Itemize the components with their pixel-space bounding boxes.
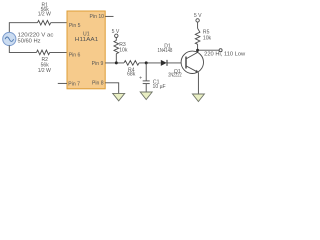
svg-text:1/2 W: 1/2 W — [38, 68, 51, 74]
wire D1 to Q1 base — [167, 62, 186, 64]
resistor R1 — [38, 20, 51, 25]
pin 8 wire to ground — [105, 83, 119, 94]
output terminal — [219, 49, 222, 52]
pin 7 stub wire — [58, 82, 67, 84]
svg-text:Pin 5: Pin 5 — [69, 23, 81, 29]
ground (C1) — [140, 92, 152, 100]
wire pin 9 to R4 — [105, 62, 124, 64]
AC source — [3, 32, 16, 45]
transistor Q1 2N2222 — [181, 51, 203, 73]
capacitor C1 plates — [143, 80, 150, 82]
resistor R5 — [195, 28, 200, 44]
5V supply (R5) — [196, 19, 199, 22]
Q1 labels — [168, 69, 182, 79]
wire output — [198, 49, 220, 51]
wire emitter to ground — [197, 72, 199, 94]
wire R4 to C1 node to D1 — [139, 62, 161, 64]
pin 10 stub wire — [105, 15, 113, 17]
svg-text:+: + — [139, 76, 142, 82]
resistor R3 — [114, 41, 119, 54]
R2 value labels — [38, 57, 51, 74]
wire R5 to 5V — [197, 22, 199, 28]
svg-text:10k: 10k — [119, 48, 128, 54]
svg-text:H11AA1: H11AA1 — [75, 37, 99, 43]
svg-text:1/2 W: 1/2 W — [38, 11, 51, 17]
svg-text:Pin 9: Pin 9 — [92, 61, 104, 67]
diode D1 1N4148 — [161, 60, 167, 66]
svg-text:Pin 10: Pin 10 — [90, 14, 105, 20]
svg-text:220 Hi, 110 Low: 220 Hi, 110 Low — [204, 52, 245, 58]
optocoupler U1 H11AA1 body — [67, 11, 105, 89]
D1 labels — [158, 44, 173, 54]
wire C1 to ground — [145, 84, 147, 92]
wire R2 to Pin 6 — [50, 51, 67, 53]
resistor R2 — [37, 50, 50, 55]
ground (pin 8) — [113, 93, 125, 101]
svg-text:68k: 68k — [127, 72, 136, 78]
node collector junction — [196, 49, 199, 52]
node C1 junction — [145, 61, 148, 64]
svg-text:Pin 6: Pin 6 — [69, 52, 81, 58]
U1 labels — [68, 14, 104, 87]
wire node down to C1 — [145, 63, 147, 81]
R4 labels — [127, 68, 136, 78]
wire R3 to node — [115, 54, 117, 63]
node R3/pin 9 junction — [115, 61, 118, 64]
wire bottom rail from AC source down and right to R2 — [9, 45, 36, 52]
svg-text:10 µF: 10 µF — [153, 84, 166, 90]
wire R1 to Pin 5 — [51, 22, 67, 24]
svg-text:50/60 Hz: 50/60 Hz — [18, 38, 41, 44]
ground (Q1 emitter) — [192, 94, 204, 102]
wire 5V to R3 — [115, 38, 117, 41]
resistor R4 — [124, 61, 139, 66]
R1 value labels — [38, 2, 51, 17]
svg-text:2N2222: 2N2222 — [168, 73, 182, 79]
AC source labels — [18, 33, 54, 45]
C1 labels — [153, 79, 166, 90]
svg-text:1N4148: 1N4148 — [158, 48, 173, 54]
svg-text:Pin 8: Pin 8 — [92, 81, 104, 87]
R5 labels — [203, 30, 212, 42]
svg-text:Pin 7: Pin 7 — [68, 81, 80, 87]
svg-text:5 V: 5 V — [194, 13, 202, 19]
wire collector up to node — [197, 44, 199, 52]
R3 labels — [119, 42, 128, 54]
svg-text:10k: 10k — [203, 35, 212, 41]
wire top rail from AC source up and right to R1 — [9, 23, 37, 33]
